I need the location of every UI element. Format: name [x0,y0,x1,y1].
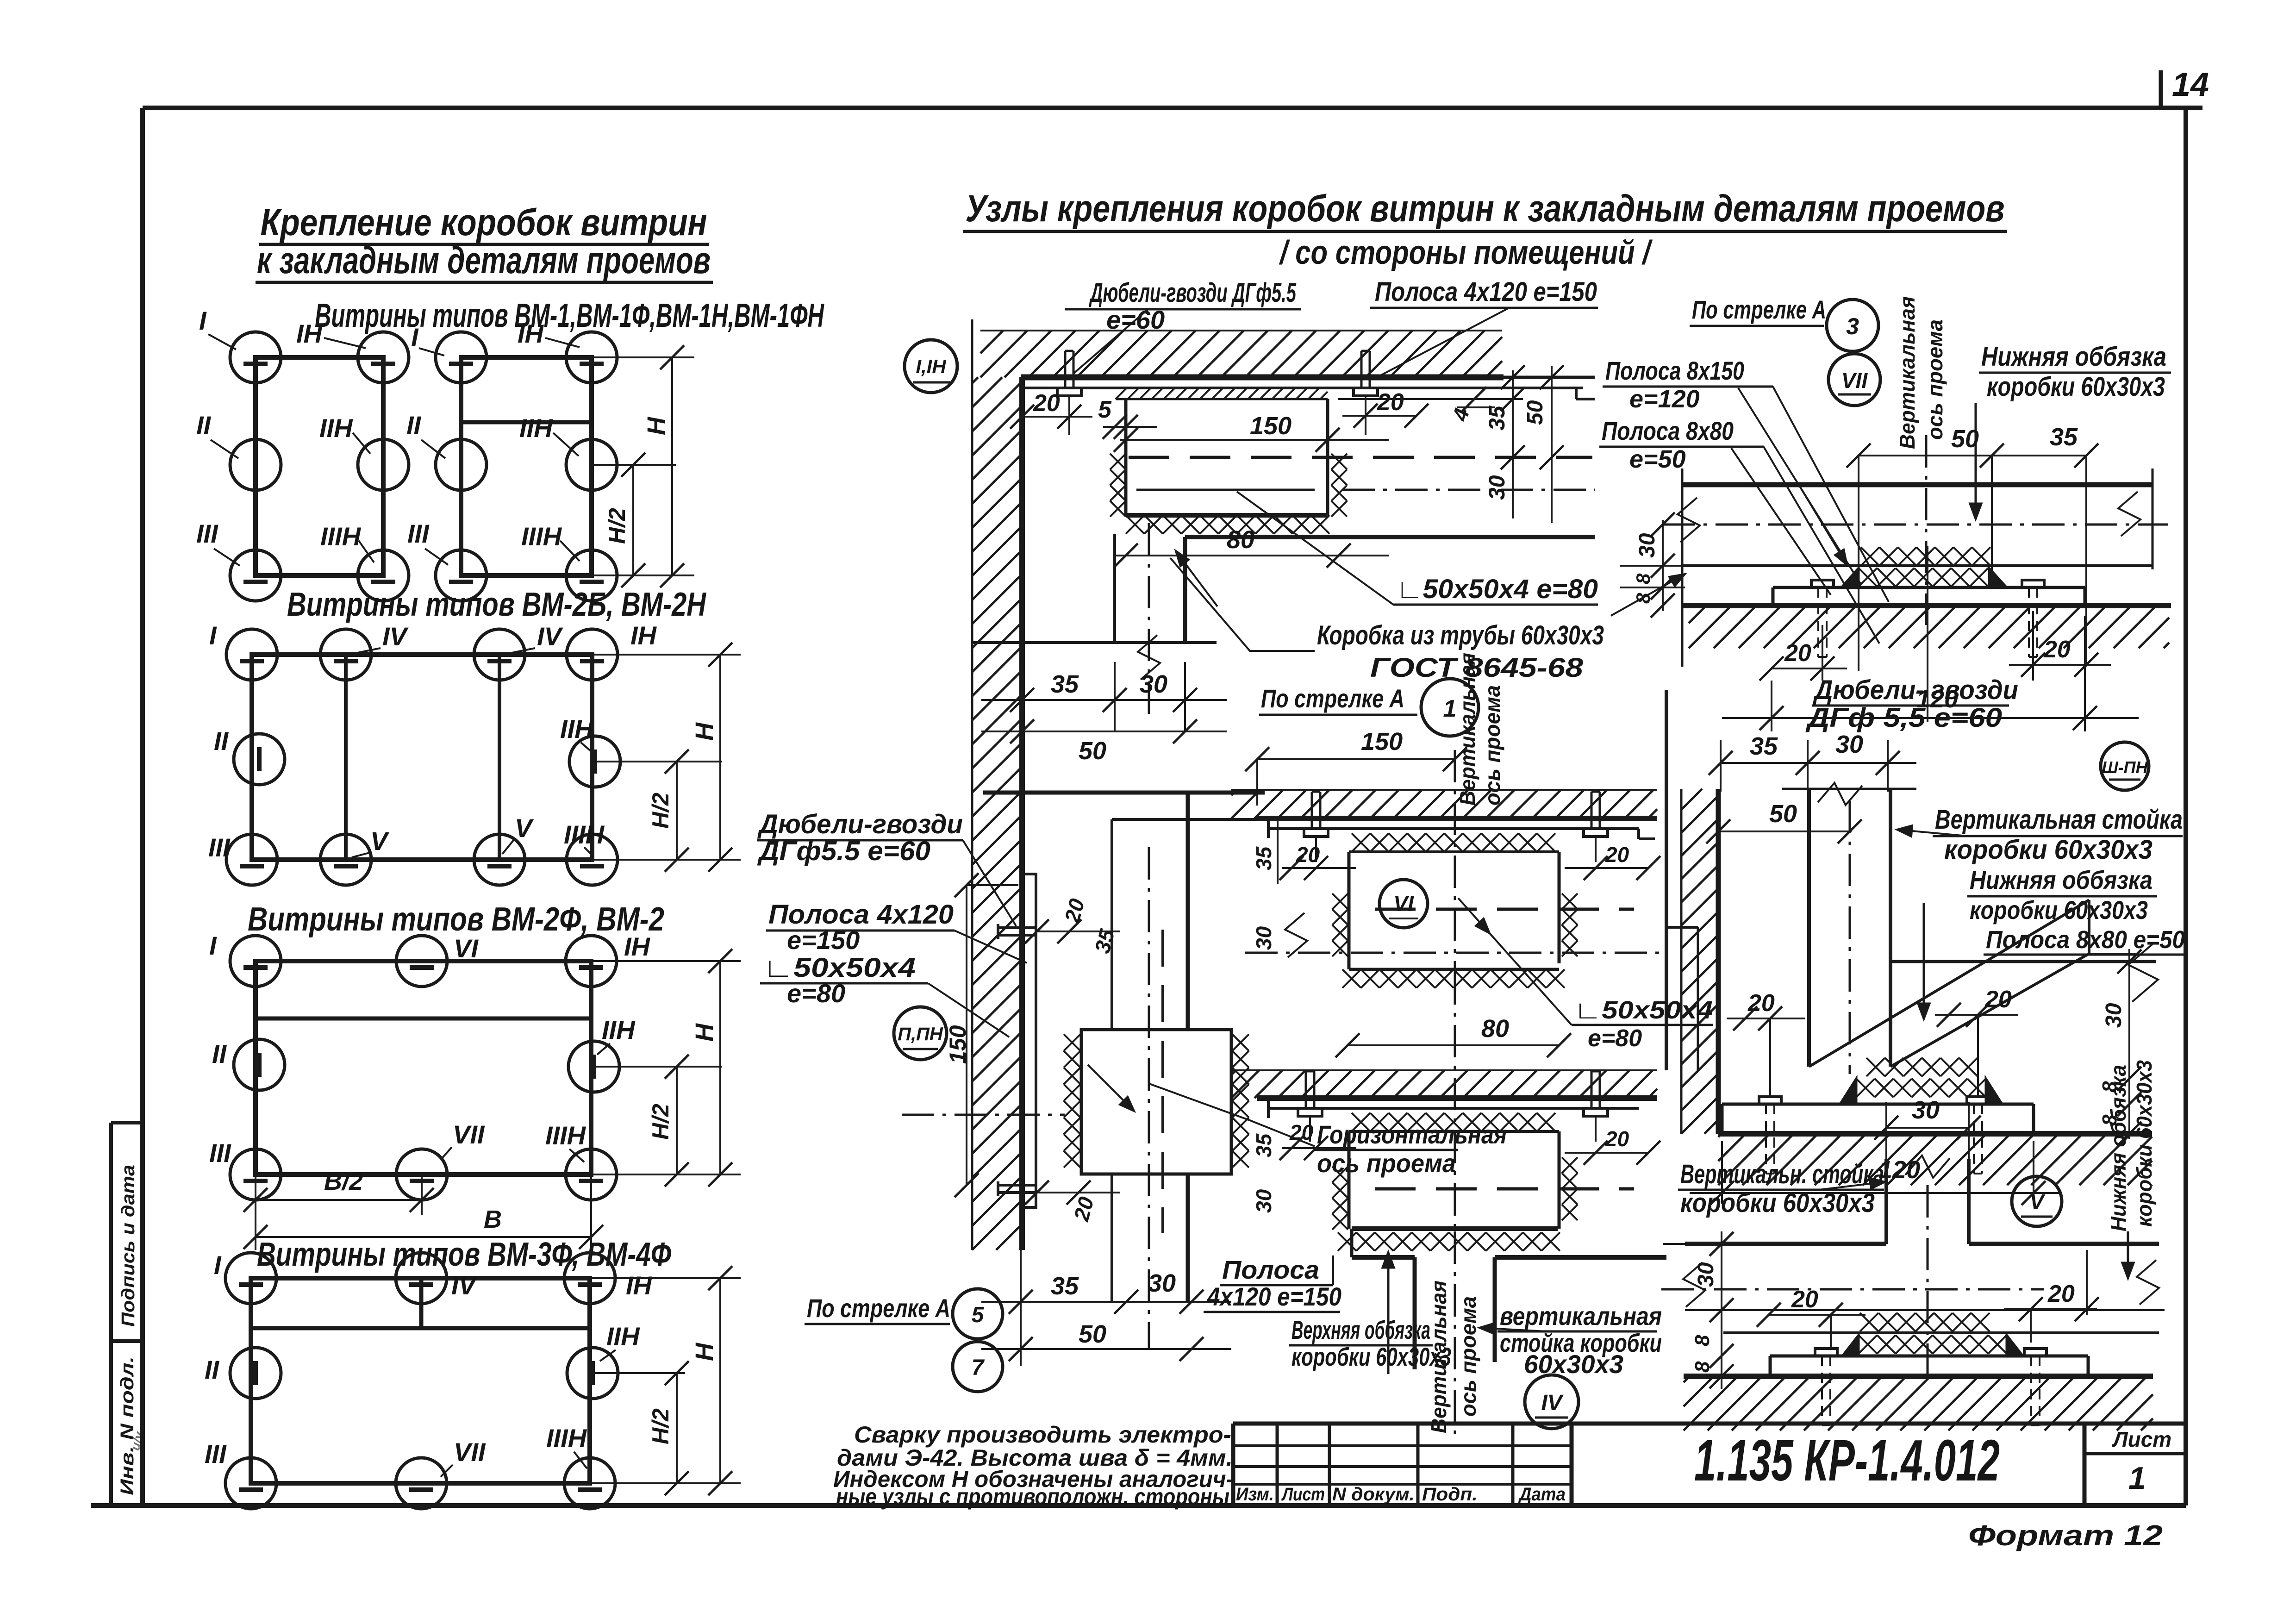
svg-text:35: 35 [1750,732,1778,760]
svg-text:IIIН: IIIН [320,522,362,551]
anchor point circle [396,1253,447,1304]
wall left boundary (detail P) [971,380,973,1250]
svg-text:20: 20 [2043,636,2071,663]
base plate (detail Sh) [1722,1103,2034,1106]
anchor point circle [566,550,617,601]
svg-text:50: 50 [1769,800,1797,828]
ceiling hatch top boundary (detail 1) [1231,789,1657,791]
svg-text:IН: IН [518,319,544,348]
dimension H/2 diagram VM-2F [676,1067,678,1174]
svg-text:30: 30 [1252,1189,1276,1213]
anchor point circle [566,1149,617,1200]
dimension H diagram VM-1 [592,356,694,358]
xxx seam upper (detail 3) [1861,547,1879,566]
svg-text:Н: Н [691,1343,718,1361]
svg-text:е=120: е=120 [1629,385,1700,413]
svg-text:Полоса 4х120 е=150: Полоса 4х120 е=150 [1375,277,1597,307]
anchor point circle [320,834,371,885]
isometric rail corner lines (detail Sh) [1809,900,2089,1067]
svg-text:IН: IН [624,932,651,961]
svg-text:Нижняя оббязка: Нижняя оббязка [1970,865,2152,894]
ground line (detail Sh) [1718,1131,2152,1137]
axis extension down (detail 3) [1927,546,1928,722]
diagram VM-3F rectangle [251,1278,590,1483]
svg-text:35: 35 [1252,1133,1276,1157]
svg-text:20: 20 [1377,389,1404,416]
svg-text:35: 35 [1485,405,1510,431]
svg-text:коробки 60х30х3: коробки 60х30х3 [1970,895,2148,924]
vertical plate on wall (detail P) [1022,874,1036,1207]
dim 30 8 8 left (detail 3) [1662,520,1664,611]
dim 20 (detail 1 lower) [1282,1147,1356,1149]
svg-text:I: I [209,621,217,650]
page number 14 tick [2159,70,2163,108]
svg-text:Нижняя оббязка: Нижняя оббязка [2106,1065,2130,1231]
leader to plate right (detail I) [1373,308,1509,380]
dim 20 right (detail V) [2004,1308,2097,1310]
anchor point circle [396,1458,447,1509]
xxx seam lower (detail 3) [1859,568,1877,587]
node circle Sh,PN [2101,742,2149,790]
svg-text:7: 7 [972,1355,985,1380]
diagram VM-2B rectangle [252,655,592,860]
svg-text:I,IН: I,IН [916,356,947,377]
plate under ceiling (detail 1) [1268,827,1639,830]
anchor point circle [230,550,281,601]
dimension H/2 diagram VM-1 [632,465,634,575]
right dowel (detail 1 lower) [1584,1108,1608,1116]
svg-text:Вертикальная: Вертикальная [1895,296,1919,449]
rail lower line (detail V) [1723,1331,2159,1334]
plate (detail 1 lower) [1268,1107,1639,1110]
svg-text:ные узлы с противоположн.: ные узлы с противоположн. стороны [836,1484,1229,1510]
node circle P,PN [894,1007,947,1060]
diagram VM-3F inner top stub [419,1278,424,1328]
xxx seal right (detail 1 lower) [1562,1157,1578,1173]
box tube (detail 1) [1348,852,1351,969]
dim 20 right below (detail 3) [2032,611,2034,681]
sheet frame right border [2184,108,2188,1505]
ground hatch (detail Sh) [1718,1134,1722,1137]
dim 20 right (detail 1 lower) [1565,1152,1648,1154]
diagram VM-3F inner top line [251,1326,590,1330]
xxx seal right (detail 1) [1562,893,1578,909]
arrow to rail (detail 3) [1611,574,1685,616]
box dashed line (detail P) [1161,930,1164,1233]
svg-text:80: 80 [1481,1015,1509,1043]
svg-text:Витрины типов ВМ-2Б, ВМ-2Н: Витрины типов ВМ-2Б, ВМ-2Н [287,586,707,623]
svg-text:Н/2: Н/2 [604,508,630,544]
box dashed hidden line (detail I) [1129,456,1592,459]
svg-text:8: 8 [1632,573,1654,584]
xxx seal top (detail 1) [1352,833,1370,852]
xxx seal left (detail 1 lower) [1332,1167,1348,1182]
anchor point circle [358,332,409,383]
dim 120 bottom (detail Sh) [1721,1141,1723,1204]
svg-text:Н/2: Н/2 [648,1408,674,1444]
svg-text:30: 30 [1140,670,1167,698]
svg-text:50: 50 [1523,400,1547,425]
stand verticals (detail Sh) [1807,789,1811,1067]
svg-text:По стрелке А: По стрелке А [807,1293,950,1323]
dims 35 30 50 below wall (detail I) [1021,643,1023,731]
leader to left dowel (detail I) [1074,309,1148,373]
dimension B/2 diagram VM-2F [255,1174,256,1250]
box tube (detail 1 lower) [1348,1131,1351,1229]
xxx seal right (detail P) [1232,1034,1249,1051]
dim 80 (detail I) [1115,555,1389,556]
svg-text:II: II [406,411,422,440]
svg-text:II: II [205,1355,220,1384]
wall face line (detail Sh) [1716,789,1721,1134]
svg-text:20: 20 [1296,843,1320,867]
left dowel (detail 1 lower) [1298,1108,1322,1116]
svg-text:150: 150 [1361,728,1403,756]
svg-text:30: 30 [1694,1262,1718,1287]
xxx seal left (detail P) [1064,1034,1080,1051]
svg-text:Горизонтальная: Горизонтальная [1317,1120,1507,1149]
svg-text:1: 1 [1443,695,1457,722]
svg-text:Полоса: Полоса [1222,1255,1319,1284]
anchor point circle [358,439,409,490]
ceiling line (detail 1) [1257,816,1657,821]
xxx seam lower (detail V) [1859,1335,1877,1354]
stand axis (detail V) [1927,1185,1929,1380]
ceiling soffit line (detail I) [1021,375,1504,381]
svg-text:VII: VII [1841,369,1868,393]
dimension B diagram VM-2F [256,1236,591,1238]
svg-text:Дюбели- гвозди: Дюбели- гвозди [1812,675,2018,705]
svg-text:∟50х50х4: ∟50х50х4 [1574,996,1713,1024]
right dowel (detail I) [1354,388,1378,396]
svg-text:35: 35 [1051,1272,1079,1300]
rail axis (detail V) [1661,1288,2044,1291]
svg-text:IV: IV [451,1271,478,1300]
svg-text:к закладным деталям проемов: к закладным деталям проемов [257,239,711,281]
vertical axis (detail 3) [1925,435,1928,625]
dim 20 right (detail Sh) [1935,1014,2018,1016]
jamb lines continuing down (detail P) [1111,819,1113,1030]
svg-text:Н: Н [643,417,670,435]
vertical dims 35/50/30 right (detail I) [1338,398,1523,400]
box dashed line (detail 1) [1375,908,1634,911]
dim 150 left (detail P) [966,885,967,1185]
anchor point circle [564,1253,615,1304]
left dowel (detail I) [1057,388,1081,396]
ceiling hatch top boundary (detail I) [980,330,1502,331]
anchor point circle [320,629,371,680]
ground line (detail 3) [1682,603,2171,608]
svg-text:IН: IН [296,319,323,348]
dim 20 right (detail I) [1342,415,1416,417]
svg-text:IIIН: IIIН [521,522,562,551]
svg-text:Витрины типов ВМ-2Ф, ВМ-2: Витрины типов ВМ-2Ф, ВМ-2 [248,901,664,938]
svg-text:Инв. N подл.: Инв. N подл. [117,1356,137,1495]
rail top line (detail V) [1685,1242,1886,1246]
svg-text:Н/2: Н/2 [648,1104,674,1140]
dim 50 35 top (detail 3) [1859,455,2086,456]
xxx seal bottom (detail I) [1126,515,1144,534]
svg-text:V: V [515,813,534,843]
sheet frame bottom border [91,1503,2186,1508]
anchor point circle [396,936,447,987]
anchor point circle [474,629,525,680]
svg-text:Витрины типов ВМ-1,ВМ-1Ф,ВМ-: Витрины типов ВМ-1,ВМ-1Ф,ВМ-1Н,ВМ-1ФН [315,297,824,334]
anchor point circle [230,1149,281,1200]
xxx seal top (detail 1 lower) [1352,1113,1370,1131]
diagram VM-1 right rectangle [461,357,592,575]
bolt right (detail 3) [2022,580,2044,587]
xxx seal left (detail I) [1110,454,1126,469]
svg-text:Лист: Лист [1281,1484,1325,1505]
title block inner columns [1276,1424,1279,1505]
anchor point circle [567,629,618,680]
dim 20 bottom (detail P) [1037,1192,1120,1193]
rail top edge going right (detail Sh) [1890,960,2156,963]
dimension H/2 diagram VM-3F [676,1373,678,1483]
anchor point circle [226,834,277,885]
stand top break (detail Sh) [1782,788,1916,790]
anchor point circle [436,332,487,383]
horizontal axis (detail 1) [1245,952,1668,954]
break mark (detail I) [1138,635,1160,680]
svg-text:30: 30 [1252,926,1276,950]
dimension H/2 diagram VM-2B [676,762,678,860]
svg-text:IН: IН [626,1271,653,1300]
svg-text:Формат 12: Формат 12 [1968,1520,2163,1552]
svg-text:5: 5 [1098,396,1112,423]
dim 20 upper right (detail 1) [1565,867,1648,869]
svg-text:По стрелке А: По стрелке А [1692,295,1826,324]
right dowel (detail 1) [1584,829,1608,837]
anchor point circle [234,734,285,785]
svg-text:Нижняя оббязка: Нижняя оббязка [1981,342,2166,372]
svg-text:IIН: IIН [602,1015,636,1044]
dims 35 30 below (detail P) [1020,1250,1022,1366]
svg-text:3: 3 [1846,313,1859,339]
dim 150 top (detail 1) [1257,758,1455,760]
svg-text:В/2: В/2 [324,1168,363,1195]
anchor point circle [230,332,281,383]
rail axis (detail 3) [1663,524,2168,526]
svg-text:30: 30 [1912,1096,1940,1124]
svg-text:I: I [199,306,207,335]
dim 20 left (detail Sh) [1727,1018,1805,1019]
rail top line (detail 3) [1682,482,2152,487]
node circle V [2012,1176,2062,1226]
thin packing strip with dense hatch (detail I) [1116,398,1328,400]
svg-text:V: V [2030,1190,2046,1214]
svg-text:50: 50 [1079,737,1106,765]
upper break lines (detail P) [983,791,1265,795]
svg-text:III: III [205,1439,227,1468]
svg-text:V: V [370,826,390,856]
bottom rail tee (detail 1 lower) [1350,1229,1354,1257]
svg-text:II: II [196,411,212,440]
svg-text:Н: Н [691,722,718,741]
svg-text:IIН: IIН [519,413,553,443]
svg-text:коробки 60х30х3: коробки 60х30х3 [1944,835,2152,865]
dim 80 (detail 1) [1348,1044,1559,1046]
svg-text:30: 30 [1148,1269,1176,1297]
base plate (detail V) [1770,1355,2088,1358]
svg-text:50: 50 [1951,425,1979,453]
horizontal axis dash-dot (detail P) [902,1114,1065,1116]
svg-text:вертикальная: вертикальная [1500,1301,1662,1330]
svg-text:коробки 60х30х3: коробки 60х30х3 [2132,1060,2156,1227]
svg-text:IН: IН [630,621,657,650]
weld triangles (detail Sh) [1840,1079,1856,1104]
anchor point circle [436,550,487,601]
svg-text:IIIН: IIIН [564,820,605,849]
vertical axis dash-dot (detail 1) [1454,750,1456,972]
dim 20 left (detail I) [1022,416,1092,418]
dimension H diagram VM-2B [592,654,741,656]
xxx seal bottom (detail 1) [1342,969,1361,988]
svg-text:20: 20 [1984,986,2012,1013]
xxx seal left (detail 1) [1332,893,1348,909]
svg-text:VI: VI [454,934,479,963]
right vertical ext (detail V) [2086,1250,2088,1315]
bolts (detail V) [1815,1349,1837,1356]
dim 30 left (detail V) [1721,1231,1722,1389]
jamb below box left line (detail I) [1113,534,1116,643]
svg-text:30: 30 [1485,475,1510,500]
svg-text:60х30х3: 60х30х3 [1524,1349,1623,1379]
anchor point circle [234,1039,285,1090]
dim 20 left below (detail 3) [1822,625,1823,681]
diagram VM-1 left rectangle [256,357,383,575]
arrow into box (detail P) [1088,1065,1134,1111]
stand axis (detail Sh) [1849,801,1851,1074]
jamb below box thick line (detail I) [1183,537,1187,643]
dim 20 upper left (detail 1) [1282,867,1356,869]
svg-text:IIН: IIН [606,1322,640,1351]
svg-text:Н: Н [691,1023,718,1042]
svg-text:IV: IV [382,622,409,651]
svg-text:III: III [209,1138,231,1168]
svg-text:30: 30 [1835,731,1863,758]
anchor point circle [566,332,617,383]
diagram VM-1 right rect inner line [461,420,592,425]
svg-text:ось проема: ось проема [1456,1296,1480,1417]
list cell [2083,1424,2087,1505]
title block row lines [1233,1444,1572,1447]
xxx seal (detail Sh) [1866,1058,1885,1076]
box tube section (detail P) [1081,1030,1231,1174]
svg-text:VII: VII [454,1437,486,1467]
svg-text:IV: IV [1541,1391,1564,1415]
arrow up (detail 1 lower) [1387,1253,1390,1374]
anchor point circle [358,550,409,601]
diagram VM-2F inner top line [256,1017,591,1021]
svg-text:IIIН: IIIН [546,1424,587,1453]
dim 20/35 top (detail P) [1037,931,1120,932]
sheet frame left border [140,108,145,1505]
anchor point circle [230,439,281,490]
svg-text:IV: IV [537,622,564,651]
title block outline [1233,1422,2186,1426]
svg-text:III: III [407,519,430,548]
node circle VI [1379,880,1428,928]
svg-text:Н/2: Н/2 [648,793,674,829]
svg-text:30: 30 [2102,1003,2126,1028]
svg-text:1: 1 [2128,1461,2146,1496]
slab hatch top boundary (detail 1 lower) [1231,1069,1657,1071]
svg-text:20: 20 [1784,640,1811,667]
svg-text:П,ПН: П,ПН [898,1024,943,1044]
leader arrow down (detail 3) [1975,403,1977,518]
svg-text:VII: VII [453,1120,485,1149]
svg-text:IIН: IIН [319,413,353,443]
svg-text:III: III [208,833,231,862]
anchor point circle [436,439,487,490]
arrow down from rotated label (detail V) [2127,1231,2129,1278]
break marks (detail V) [1683,1262,1705,1307]
ground hatch (detail 3) [1689,606,1706,623]
svg-text:35: 35 [2050,423,2078,451]
floor slab line (detail 1 lower) [1257,1095,1657,1101]
svg-text:8: 8 [1691,1335,1714,1346]
base plate (detail 3) [1773,586,2085,589]
svg-text:20: 20 [2047,1280,2075,1307]
rail lower line (detail 3) [1682,564,2152,567]
svg-text:50: 50 [1079,1320,1106,1348]
svg-text:Полоса 8х150: Полоса 8х150 [1605,356,1744,385]
diagram VM-2F rectangle [256,961,591,1174]
arrow on jamb (detail I) [1176,551,1217,606]
anchor point circle [568,1041,619,1092]
svg-text:20: 20 [1033,390,1060,417]
svg-text:Подпись и дата: Подпись и дата [118,1165,138,1327]
svg-text:Изм.: Изм. [1236,1484,1274,1505]
svg-text:20: 20 [1791,1286,1818,1313]
svg-text:Узлы крепления коробок витр: Узлы крепления коробок витрин к закладны… [966,187,2005,230]
node circle 3 [1827,300,1878,351]
svg-text:30: 30 [1635,533,1660,558]
ground hatch (detail V) [1684,1376,1690,1382]
svg-text:Вертикальная стойка: Вертикальная стойка [1935,805,2183,835]
svg-text:I: I [411,323,419,352]
svg-text:1.135 КР-1.4.012: 1.135 КР-1.4.012 [1694,1428,2000,1493]
svg-text:II: II [214,726,229,756]
svg-text:III: III [196,519,218,548]
wall inner boundary (detail I) [971,319,973,380]
dim 120 (detail 3) [1771,681,1772,731]
svg-text:е=80: е=80 [1588,1025,1642,1052]
box top edge (detail 1 lower) [1349,1130,1559,1133]
node circle I,IN [905,340,957,393]
plate polosa under ceiling (detail I) [1022,387,1583,389]
svg-text:Крепление коробок витрин: Крепление коробок витрин [261,201,707,244]
dim 150 (detail I) [1120,439,1389,441]
svg-text:IIН: IIН [560,714,594,743]
svg-text:VI: VI [1393,892,1414,916]
ceiling hatch (detail I) [980,331,1003,353]
dims 35 30 top (detail Sh) [1721,762,1916,764]
anchor point circle [567,1348,618,1399]
svg-text:Витрины типов ВМ-3Ф, ВМ-4Ф: Витрины типов ВМ-3Ф, ВМ-4Ф [257,1236,671,1273]
wall hatch (detail I and P continuous) [972,377,978,383]
box tube section (detail I) [1124,399,1128,515]
svg-text:35: 35 [1051,670,1079,698]
anchor point circle [569,736,620,787]
svg-text:II: II [212,1039,227,1068]
svg-text:Ш-ПН: Ш-ПН [2102,758,2148,777]
leader down from obvyazka (detail Sh) [1923,903,1925,1018]
dim 5 (detail I) [1103,426,1157,428]
anchor point circle [474,834,525,885]
